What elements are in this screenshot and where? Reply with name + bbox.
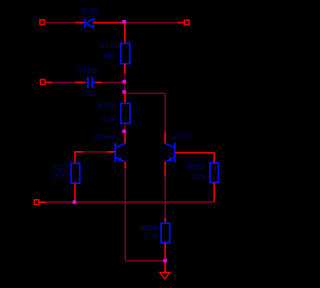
wire top rail: bright segment into diode xyxy=(76,22,85,24)
wire top rail: bright segment into P2 xyxy=(178,22,185,24)
wire: base run dim xyxy=(83,151,107,153)
wire top rail: diode to junction (bright) xyxy=(94,22,123,24)
svg-text:850: 850 xyxy=(104,53,116,60)
resistor R233r xyxy=(210,163,219,183)
wire: R212 down to rail xyxy=(74,183,76,201)
port P2 (top-right) xyxy=(184,20,189,25)
resistor R212 xyxy=(71,163,80,183)
wire: node E to ground xyxy=(164,263,166,274)
node dot on top rail xyxy=(122,20,126,24)
svg-text:2.7k: 2.7k xyxy=(145,233,159,240)
wire: corner down to R212 xyxy=(74,151,76,163)
wire rail: node D to right column (dim) xyxy=(77,201,214,203)
wire: node B down to R233 (bright) xyxy=(124,94,126,104)
node A dot (cap junction) xyxy=(122,80,126,84)
wire row2: bright into cap xyxy=(75,81,86,83)
capacitor C xyxy=(86,77,96,88)
wire branch: down to VT277 collector (dim) xyxy=(164,93,166,131)
wire: VT277 emitter dim run to R234 xyxy=(164,177,166,219)
svg-text:D 23: D 23 xyxy=(82,8,98,15)
resistor R355 xyxy=(121,43,130,63)
wire: dim into node A xyxy=(124,74,126,81)
wire: VT277 emitter bright stub xyxy=(164,162,166,177)
svg-text:R212: R212 xyxy=(52,165,69,172)
wire rail: P4 stub bright xyxy=(39,201,46,203)
wire: VT277 base right to RR column (bright) xyxy=(175,152,214,154)
svg-text:R233: R233 xyxy=(188,164,205,171)
transistor VT266 (npn, left) xyxy=(115,143,125,162)
node D dot (rail junction) xyxy=(73,200,77,204)
wire: node A to node B (dim) xyxy=(124,84,126,90)
wire: R234 down to node E xyxy=(164,243,166,259)
wire row2: P3 right (bright) xyxy=(45,81,52,83)
wire row2: dim middle xyxy=(52,81,75,83)
ground xyxy=(160,272,170,279)
svg-text:VT277: VT277 xyxy=(172,134,193,141)
svg-text:R355: R355 xyxy=(100,43,117,50)
wire: VT266 emitter bright stub xyxy=(124,162,126,169)
svg-text:R233: R233 xyxy=(98,103,115,110)
svg-text:V7366: V7366 xyxy=(78,68,99,75)
wire: base run bright at corner xyxy=(74,151,83,153)
port P4 (bottom-left) xyxy=(34,200,39,205)
svg-text:R234: R234 xyxy=(140,225,157,232)
wire top rail: junction to right (dim) xyxy=(127,22,178,24)
wire: VT266 base left (bright stub) xyxy=(107,151,115,153)
wire: VT266 emitter long dim run xyxy=(124,169,126,261)
wire row2: dim into node A xyxy=(102,81,123,83)
wire: down to R233r xyxy=(213,153,215,163)
wire top rail: P1 to diode (dim) xyxy=(45,22,76,24)
svg-text:3.7k: 3.7k xyxy=(192,174,206,181)
svg-text:VT266: VT266 xyxy=(94,134,115,141)
svg-text:6.6k: 6.6k xyxy=(102,116,116,123)
wire: node C to VT266 collector (bright) xyxy=(124,133,126,143)
node B dot (branch junction) xyxy=(122,90,126,94)
wire: emitter run to tail node (dim) xyxy=(125,260,163,262)
wire chain: top rail down to R355 xyxy=(124,24,126,44)
wire: R233r down to rail corner xyxy=(213,183,215,203)
wire rail: dim to node D xyxy=(46,201,73,203)
node C dot xyxy=(122,129,126,133)
wire: bright into R234 xyxy=(164,218,166,224)
resistor R233 xyxy=(121,103,130,123)
transistor VT277 (npn, right, mirrored) xyxy=(165,143,175,162)
wire: R233 bottom to node C (dim) xyxy=(124,123,126,129)
resistor R234 (tail) xyxy=(161,223,170,243)
svg-text:37k: 37k xyxy=(54,172,66,179)
node E dot (tail junction) xyxy=(163,259,167,263)
wire branch: node B right (dim) xyxy=(127,92,166,94)
svg-text:11u: 11u xyxy=(84,91,95,98)
wire: bright into VT277 collector xyxy=(164,132,166,144)
port P3 (mid-left input) xyxy=(40,80,45,85)
port P1 (top-left input) xyxy=(40,20,45,25)
wire: R355 down (bright) xyxy=(124,64,126,74)
diode VD1 xyxy=(85,18,94,28)
wire row2: cap to dim segment xyxy=(95,81,101,83)
